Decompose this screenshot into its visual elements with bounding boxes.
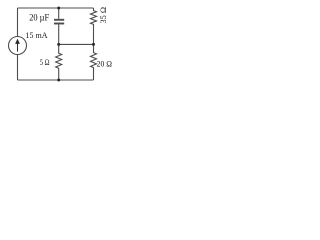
svg-text:20 µF: 20 µF xyxy=(29,13,49,23)
capacitor C1 plates xyxy=(54,20,64,24)
resistor R 20-ohm zigzag xyxy=(91,44,97,80)
node: middle-left junction xyxy=(57,43,60,46)
wire: left rail upper segment xyxy=(17,8,19,37)
svg-text:35 Ω: 35 Ω xyxy=(98,7,108,24)
resistor R 5-ohm zigzag xyxy=(56,44,62,80)
node: middle-right junction xyxy=(92,43,95,46)
svg-text:20 Ω: 20 Ω xyxy=(97,59,112,69)
current source I1 arrow xyxy=(15,39,20,52)
wire: capacitor branch top lead xyxy=(58,8,60,19)
node: bottom junction of 5-ohm branch xyxy=(57,79,60,82)
wire: middle rail between center node and right node xyxy=(59,43,94,45)
wire: top rail from left corner to right corner xyxy=(18,7,94,9)
resistor R 35-ohm zigzag xyxy=(91,8,97,44)
wire: bottom rail xyxy=(18,79,94,81)
svg-text:5 Ω: 5 Ω xyxy=(40,57,50,67)
svg-text:15 mA: 15 mA xyxy=(26,30,49,40)
current source I1 circle xyxy=(9,37,27,55)
node: top junction of capacitor branch xyxy=(57,7,60,10)
wire: capacitor branch bottom lead xyxy=(58,25,60,45)
wire: left rail lower segment xyxy=(17,55,19,81)
